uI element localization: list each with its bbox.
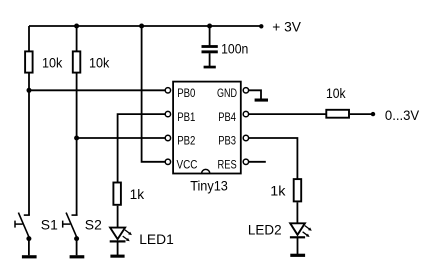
- pin GND circle: [243, 88, 248, 93]
- ground at GND pin: [255, 99, 268, 102]
- pin PB2 circle: [165, 135, 170, 140]
- wire VCC net: [142, 26, 166, 162]
- ground under LED2: [290, 254, 305, 257]
- wire C1 bottom lead: [209, 53, 211, 66]
- wire PB0 net: [29, 89, 166, 91]
- svg-text:LED1: LED1: [139, 231, 174, 247]
- svg-text:100n: 100n: [221, 41, 248, 57]
- wire R5 to output: [350, 113, 372, 115]
- wire R1 bottom to S1: [28, 74, 30, 216]
- LED1: [110, 228, 132, 242]
- svg-text:S1: S1: [41, 217, 58, 233]
- wire LED1 to ground: [117, 241, 119, 255]
- junction rail/VCC column: [139, 24, 144, 29]
- wire PB1 net to R3: [118, 114, 166, 182]
- ground under LED1: [110, 255, 124, 258]
- junction node PB2/R2/S2: [74, 136, 79, 141]
- pin RES circle: [243, 159, 248, 164]
- pin PB0 circle: [165, 88, 170, 93]
- svg-text:1k: 1k: [270, 182, 286, 198]
- wire +3V rail: [29, 25, 261, 27]
- resistor R2: [73, 51, 81, 72]
- svg-text:PB2: PB2: [177, 134, 195, 148]
- svg-text:PB4: PB4: [218, 110, 236, 124]
- ground under S1: [22, 255, 37, 258]
- wire PB4 to R5: [249, 113, 327, 115]
- op-amp U1 Tiny13 body: [173, 82, 241, 174]
- svg-text:10k: 10k: [89, 55, 110, 71]
- junction rail/C1: [207, 24, 212, 29]
- LED2: [290, 223, 312, 237]
- svg-text:10k: 10k: [42, 55, 63, 71]
- pin PB4 circle: [243, 111, 248, 116]
- svg-text:GND: GND: [217, 86, 237, 100]
- ground under C1: [204, 66, 216, 69]
- wire C1 top lead: [209, 26, 211, 46]
- svg-text:RES: RES: [218, 158, 237, 172]
- resistor R5: [326, 110, 349, 118]
- pin VCC circle: [165, 159, 170, 164]
- svg-text:VCC: VCC: [177, 158, 198, 172]
- capacitor C1: [202, 45, 218, 53]
- svg-text:1k: 1k: [130, 186, 145, 202]
- wire LED2 to ground: [297, 237, 299, 254]
- wire R2 bottom to S2: [76, 74, 78, 216]
- junction rail/R2: [74, 24, 79, 29]
- wire R1 top lead: [28, 26, 30, 52]
- wire S2 to ground: [76, 239, 78, 256]
- node +3V terminal dot: [259, 24, 263, 28]
- wire R3 to LED1: [117, 206, 119, 229]
- svg-text:PB3: PB3: [218, 134, 236, 148]
- switch S1: [15, 213, 31, 242]
- node output dot: [371, 112, 375, 116]
- pin PB1 circle: [165, 111, 170, 116]
- svg-text:PB1: PB1: [177, 110, 195, 124]
- wire GND pin to ground: [249, 90, 262, 98]
- wire R2 top lead: [76, 26, 78, 52]
- svg-text:LED2: LED2: [248, 222, 282, 238]
- resistor R4: [294, 179, 302, 201]
- wire R4 to LED2: [296, 202, 298, 224]
- wire PB3 to R4: [249, 138, 298, 179]
- wire PB2 net: [77, 137, 166, 139]
- junction node PB0/R1/S1: [27, 88, 32, 93]
- svg-text:Tiny13: Tiny13: [190, 178, 228, 194]
- U1 pin-1 notch: [202, 169, 210, 173]
- svg-text:+ 3V: + 3V: [272, 18, 301, 34]
- svg-text:PB0: PB0: [177, 86, 195, 100]
- wire RES stub: [249, 161, 266, 163]
- resistor R3: [113, 183, 121, 205]
- wire S1 to ground: [28, 239, 30, 256]
- switch S2: [63, 213, 79, 242]
- svg-text:10k: 10k: [326, 85, 346, 101]
- pin PB3 circle: [243, 135, 248, 140]
- resistor R1: [25, 51, 32, 72]
- svg-text:0...3V: 0...3V: [385, 107, 420, 123]
- ground under S2: [70, 255, 85, 258]
- svg-text:S2: S2: [85, 217, 102, 233]
